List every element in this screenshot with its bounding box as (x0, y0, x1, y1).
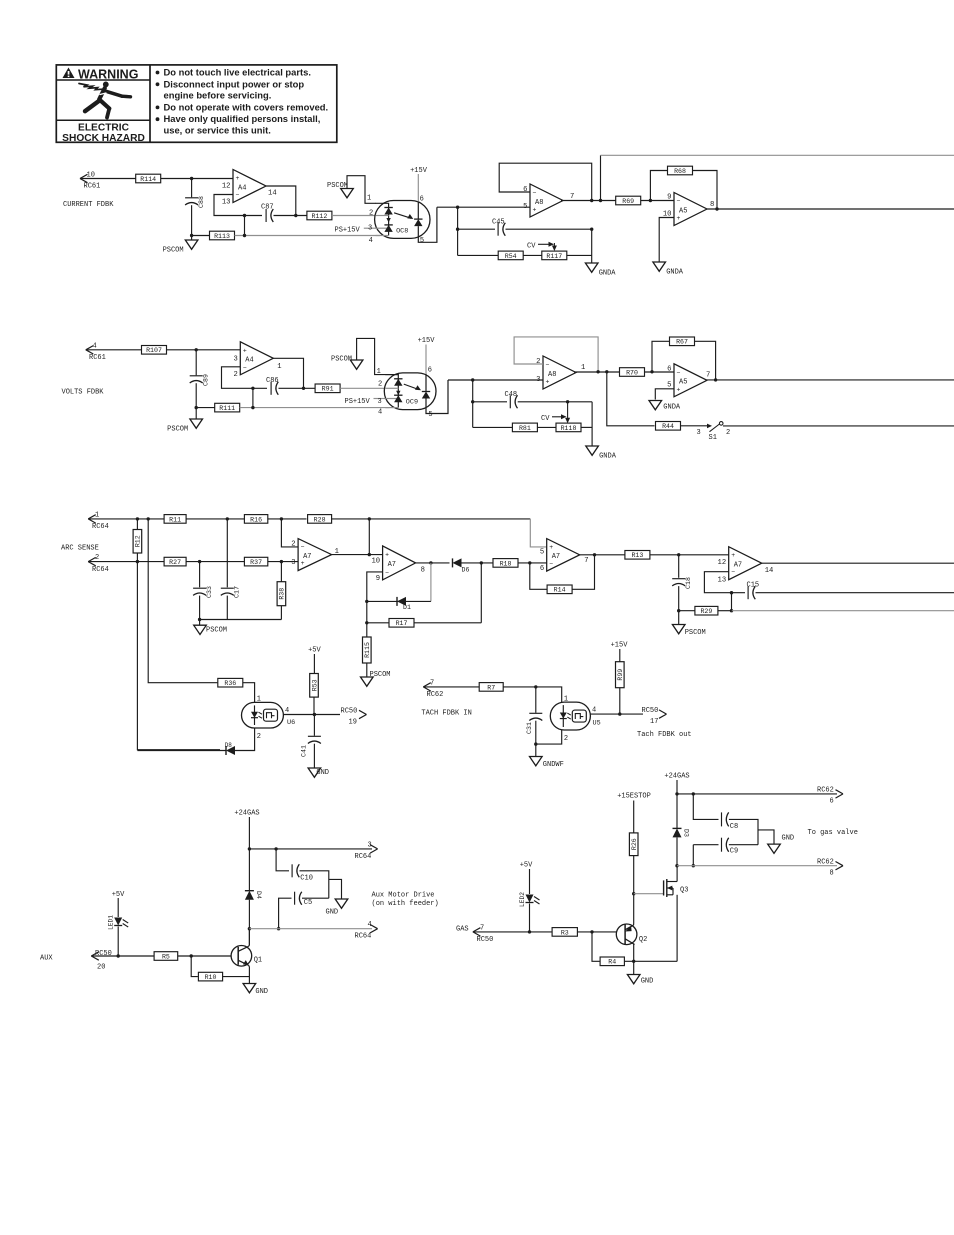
resistor R18 (493, 559, 518, 568)
wire U5 pin2 down (536, 730, 562, 744)
wire top page line (601, 154, 954, 156)
CV arrow row1 (538, 242, 557, 251)
node R17 right branch (480, 561, 483, 564)
wire U6 pin2 down (235, 728, 255, 751)
svg-text:VOLTS FDBK: VOLTS FDBK (62, 389, 105, 397)
wire node to R111 (196, 407, 215, 409)
resistor R69 (616, 196, 641, 205)
node C9/RC62-8 (692, 864, 695, 867)
connector RC50 pin20 arrow (91, 952, 99, 960)
wire branch C87 line (244, 216, 246, 236)
wire A5 output to edge row2 (706, 379, 954, 381)
svg-text:GNDA: GNDA (666, 269, 684, 277)
svg-text:A5: A5 (679, 379, 687, 387)
wire R29 row left (679, 610, 695, 612)
resistor R117 (542, 251, 567, 260)
wire C15 vert (731, 593, 733, 611)
wire R53 bottom lead (313, 697, 315, 714)
svg-text:+15V: +15V (611, 642, 629, 650)
svg-text:RC64: RC64 (92, 566, 109, 574)
wire +15ESTOP to R26 (633, 801, 635, 833)
node C45 left (456, 228, 459, 231)
wire R14 to output (572, 555, 594, 590)
svg-text:LED2: LED2 (519, 892, 526, 907)
node U5 out / R99 (618, 712, 621, 715)
svg-text:1: 1 (581, 364, 585, 372)
node C33 bottom (198, 618, 201, 621)
svg-text:Disconnect input power or stop: Disconnect input power or stop (164, 78, 305, 89)
node R12 bottom (136, 560, 139, 563)
svg-text:+5V: +5V (112, 891, 125, 899)
wire C31 bottom lead (535, 721, 537, 744)
ground PSCOM at OC8 (341, 189, 354, 198)
svg-text:GAS: GAS (456, 925, 469, 933)
resistor R10 (198, 972, 222, 981)
svg-text:R3: R3 (561, 929, 569, 936)
wire +5V stub (313, 654, 315, 674)
svg-text:R107: R107 (146, 347, 162, 354)
svg-text:GNDA: GNDA (599, 453, 617, 461)
node C31 bottom (534, 742, 537, 745)
wire R10 to emitter (223, 976, 250, 978)
ground GNDA row2 (586, 446, 617, 461)
wire R38 top lead (280, 562, 282, 582)
resistor R107 (142, 346, 167, 355)
svg-text:C87: C87 (261, 203, 274, 211)
node A8 input branch (456, 206, 459, 209)
wire R29 to C15 vert (718, 610, 732, 612)
node feedback/output (590, 199, 593, 202)
svg-text:GNDWF: GNDWF (543, 761, 564, 769)
ground GNDA under A5 row2 (649, 401, 681, 412)
wire C89 top lead (195, 350, 197, 376)
svg-text:+: + (236, 175, 240, 182)
wire PS+15V stub to pin3 row2 (374, 398, 389, 400)
node R68 branch (649, 199, 652, 202)
svg-text:R118: R118 (561, 425, 577, 432)
svg-text:A5: A5 (679, 207, 687, 215)
svg-text:U6: U6 (287, 719, 295, 727)
node C5/RC64-4 (277, 927, 280, 930)
wire branch down to R14 (530, 563, 547, 589)
node LED2/gas (528, 930, 531, 933)
connector RC64 pin1 arrow (88, 515, 96, 523)
resistor R113 (210, 231, 235, 240)
svg-text:+: + (385, 551, 389, 558)
wire branch down to C48 row (472, 380, 474, 427)
node D1 right branch (429, 561, 432, 564)
op-amp A5 row1 (663, 193, 714, 226)
svg-text:Q1: Q1 (254, 956, 262, 964)
svg-text:PSCOM: PSCOM (163, 247, 184, 255)
ground PSCOM row1 left (163, 240, 198, 255)
svg-text:D8: D8 (225, 742, 233, 749)
svg-text:R70: R70 (626, 369, 638, 376)
wire gate wire (634, 893, 664, 895)
svg-text:14: 14 (765, 567, 774, 575)
wire R54 row left (458, 254, 499, 256)
wire node to R113 (192, 235, 210, 237)
svg-text:R115: R115 (364, 642, 371, 658)
node U6 out / R53 (313, 713, 316, 716)
svg-text:To gas valve: To gas valve (808, 829, 858, 837)
svg-text:R7: R7 (487, 684, 495, 691)
resistor R27 (164, 557, 186, 566)
svg-text:PS+15V: PS+15V (335, 227, 361, 235)
wire C10 elbow (276, 849, 289, 871)
svg-text:D3: D3 (683, 829, 690, 837)
op-amp A8 row1 (523, 184, 574, 217)
svg-text:4: 4 (378, 408, 382, 416)
svg-text:RC50: RC50 (341, 708, 358, 716)
node R29/C15 vert (730, 609, 733, 612)
svg-text:C31: C31 (526, 722, 533, 734)
wire RC50 to R5 (91, 955, 153, 957)
node LED1/aux (117, 954, 120, 957)
node topline/output (599, 199, 602, 202)
svg-text:+: + (677, 386, 681, 393)
resistor R115 (363, 637, 372, 663)
wire D4 to RC64-4 (248, 900, 250, 946)
node RC62-8 branch (675, 864, 678, 867)
wire R68 to output (693, 171, 718, 210)
svg-text:3: 3 (536, 376, 540, 384)
wire R118 to vertical (581, 426, 592, 428)
svg-text:−: − (549, 561, 553, 568)
wire R17 row (367, 622, 389, 624)
warning bullet text (156, 67, 329, 136)
node R44 branch (605, 370, 608, 373)
svg-text:GND: GND (255, 988, 268, 996)
svg-text:C33: C33 (206, 586, 213, 598)
wire R12 down to D8 row (137, 553, 220, 750)
capacitor C88 (185, 196, 205, 208)
svg-text:PSCOM: PSCOM (370, 671, 391, 679)
wire A7-2 pin9 elbow (367, 572, 383, 637)
svg-text:R16: R16 (250, 516, 262, 523)
svg-text:RC61: RC61 (89, 354, 106, 362)
svg-text:13: 13 (222, 199, 231, 207)
wire C48 to right vertical (518, 401, 592, 403)
svg-text:3: 3 (697, 429, 701, 437)
svg-text:GND: GND (326, 909, 339, 917)
svg-text:Do not operate with covers rem: Do not operate with covers removed. (164, 101, 329, 112)
wire C33 bottom lead (199, 596, 201, 620)
svg-text:PSCOM: PSCOM (331, 356, 352, 364)
wire C18 top lead (678, 555, 680, 578)
resistor R17 (389, 619, 414, 628)
svg-text:+15V: +15V (418, 337, 436, 345)
svg-text:+24GAS: +24GAS (234, 810, 259, 818)
svg-text:OC8: OC8 (396, 227, 408, 235)
svg-text:C5: C5 (304, 899, 312, 907)
svg-text:+: + (243, 347, 247, 354)
resistor R11 (164, 515, 186, 524)
wire second arc line seg2 (186, 561, 244, 563)
connector RC61 pin10 arrow (80, 174, 88, 182)
wire A7-2 output (416, 562, 450, 564)
wire C9 left (693, 844, 718, 846)
wire U6 pin4 out (283, 714, 340, 716)
wire OC9 pin5 out (448, 379, 473, 381)
svg-text:−: − (243, 364, 247, 371)
op-amp A4 row2 (233, 342, 281, 379)
wire R44 to switch (681, 425, 710, 427)
svg-text:−: − (301, 544, 305, 551)
wire R114 to A4 pin12 (161, 178, 233, 180)
node vert2 top (147, 517, 150, 520)
node RC64-4 branch (248, 927, 251, 930)
wire RC64-4 row (249, 928, 372, 930)
svg-text:GNDA: GNDA (663, 404, 681, 412)
svg-text:RC50: RC50 (642, 707, 659, 715)
wire C9 right (729, 844, 758, 846)
op-amp A7 second (371, 546, 424, 583)
wire C45 to right vertical (506, 228, 592, 230)
wire C88 top lead (191, 179, 193, 198)
wire R70 to A5 pin6 (645, 371, 675, 373)
wire C41 top lead (313, 715, 315, 736)
wire A7-4 pin13 elbow (704, 572, 745, 593)
node R17 left (365, 621, 368, 624)
svg-text:5: 5 (667, 381, 671, 389)
svg-text:1: 1 (277, 363, 281, 371)
svg-text:GND: GND (316, 769, 329, 777)
wire second arc line seg1 (88, 561, 164, 563)
svg-text:RC64: RC64 (92, 523, 109, 531)
svg-text:9: 9 (376, 575, 380, 583)
op-amp A7 third (540, 539, 589, 574)
connector RC62 pin7 arrow (423, 683, 431, 691)
svg-text:+: + (533, 207, 537, 214)
node feedback/output row2 (596, 370, 599, 373)
node pin2 branch (280, 517, 283, 520)
diode D6 (453, 558, 470, 573)
svg-text:R5: R5 (162, 953, 170, 960)
ground GND gas caps (768, 844, 781, 853)
wire R91 to OC9 pin2 (340, 387, 386, 389)
wire RC61 to R114 (80, 178, 136, 180)
capacitor C15 (748, 586, 755, 599)
node CV arrow top (566, 400, 569, 403)
resistor R70 (620, 368, 645, 377)
wire R38 bottom lead (280, 606, 282, 620)
svg-text:+24GAS: +24GAS (664, 773, 689, 781)
ground PSCOM under C18 (672, 625, 705, 638)
wire A8 output (561, 200, 616, 202)
wire A4 pin2 feedback elbow (222, 367, 268, 389)
wire C8 right (729, 819, 758, 844)
svg-text:R36: R36 (224, 680, 236, 687)
svg-text:GND: GND (782, 835, 795, 843)
wire right vertical to GNDA row2 (591, 402, 593, 446)
resistor R16 (244, 515, 267, 524)
svg-text:R14: R14 (554, 587, 566, 594)
svg-text:PS+15V: PS+15V (345, 398, 371, 406)
optocoupler OC8 (375, 201, 437, 243)
connector RC64 pin3 arrow (370, 845, 378, 853)
svg-text:R4: R4 (608, 959, 616, 966)
resistor R38 (277, 582, 286, 606)
resistor R118 (556, 423, 581, 432)
svg-text:−: − (385, 569, 389, 576)
switch S1 (707, 422, 723, 432)
node D1 left (365, 600, 368, 603)
svg-text:RC62: RC62 (817, 859, 834, 867)
connector RC62 pin6 arrow (836, 790, 844, 798)
svg-text:−: − (236, 192, 240, 199)
wire C5 left elbow (279, 898, 292, 929)
svg-text:12: 12 (222, 183, 231, 191)
resistor R81 (512, 423, 537, 432)
wire C45 row (458, 228, 495, 230)
warning box frame (56, 65, 337, 142)
op-amp A4 row1 (222, 170, 277, 207)
wire RC62-6 row (677, 793, 837, 795)
ground GND under C41 (308, 768, 329, 777)
svg-text:R99: R99 (617, 669, 624, 681)
transistor Q2 (616, 924, 647, 945)
wire top arc line seg1 (88, 518, 164, 520)
svg-text:A7: A7 (552, 553, 560, 561)
svg-text:C88: C88 (198, 196, 205, 208)
svg-text:D6: D6 (462, 567, 470, 574)
svg-text:2: 2 (95, 554, 99, 562)
ground PSCOM row3 (194, 625, 227, 635)
capacitor C5 (295, 892, 302, 905)
wire C17 vertical (226, 519, 228, 587)
wire stub to pscom row3 (199, 620, 201, 626)
node R12 top (136, 517, 139, 520)
svg-text:13: 13 (718, 577, 727, 585)
wire A8 pin2 feedback row2 (514, 337, 598, 372)
wire +5V to LED1 (117, 898, 119, 917)
svg-text:R113: R113 (214, 233, 230, 240)
svg-text:+: + (731, 552, 735, 559)
svg-text:1: 1 (377, 368, 381, 376)
wire R111 to OC9 pin4 (240, 407, 390, 409)
svg-text:4: 4 (592, 707, 596, 715)
wire R36 to U6 pin1 (243, 683, 255, 703)
svg-text:WARNING: WARNING (78, 67, 138, 81)
svg-text:9: 9 (667, 194, 671, 202)
svg-text:7: 7 (584, 557, 588, 565)
wire Q2 top to R26 (633, 856, 635, 925)
wire +15V to OC8 (417, 174, 419, 202)
wire C18 bottom lead (678, 586, 680, 624)
node R14 left branch (528, 561, 531, 564)
capacitor C86 (271, 382, 278, 395)
svg-text:6: 6 (540, 565, 544, 573)
node C18 top (677, 553, 680, 556)
svg-text:S1: S1 (709, 434, 717, 442)
wire PS+15V stub to pin3 (364, 227, 379, 229)
svg-text:R53: R53 (311, 679, 318, 691)
wire vert2 down to R36 row (148, 519, 217, 683)
svg-text:−: − (546, 362, 550, 369)
capacitor C41 (300, 736, 321, 757)
svg-text:ARC SENSE: ARC SENSE (61, 545, 99, 553)
node A8 input branch row2 (471, 378, 474, 381)
svg-text:U5: U5 (593, 720, 601, 728)
svg-text:GND: GND (641, 978, 654, 986)
svg-text:10: 10 (371, 558, 380, 566)
wire D8 left (137, 750, 226, 752)
svg-text:A7: A7 (303, 553, 311, 561)
wire R113 to OC8 pin4 (235, 235, 381, 237)
node R111/C86 branch (251, 406, 254, 409)
svg-text:R12: R12 (135, 535, 142, 547)
capacitor C31 (526, 713, 543, 734)
connector RC61 pin4 arrow (86, 346, 94, 354)
node A7-1 out branch top (368, 517, 371, 520)
capacitor C48 (510, 395, 517, 408)
svg-text:R112: R112 (311, 213, 327, 220)
svg-text:R54: R54 (505, 253, 517, 260)
svg-text:8: 8 (710, 201, 714, 209)
resistor R5 (154, 952, 178, 961)
wire up to R67 (652, 341, 670, 372)
node C48 left (471, 400, 474, 403)
resistor R28 (308, 515, 332, 524)
diode D8 (226, 746, 235, 755)
node C89/R111 (195, 406, 198, 409)
svg-text:C10: C10 (300, 875, 313, 883)
wire Q1 collector up (248, 929, 251, 946)
wire A4 output (266, 186, 296, 216)
wire branch up to top line (368, 519, 370, 555)
svg-text:C18: C18 (685, 577, 692, 589)
svg-text:Do not touch live electrical p: Do not touch live electrical parts. (164, 67, 311, 78)
wire top arc line seg4 (332, 518, 531, 520)
svg-text:5: 5 (428, 411, 432, 419)
node on C87 line (243, 214, 246, 217)
wire A5 output to edge (707, 208, 954, 210)
wire C87 to R112 (274, 215, 308, 217)
svg-text:C86: C86 (266, 377, 279, 385)
wire D3 to C9 node (676, 837, 678, 865)
wire A5 pin5 to gnd row2 (655, 389, 674, 400)
wire C88 bottom lead (191, 205, 193, 240)
wire LED1 to aux line (117, 927, 119, 957)
svg-text:C15: C15 (747, 581, 760, 589)
wire pscom bottom row (200, 619, 282, 621)
svg-text:+: + (549, 544, 553, 551)
ground PSCOM at OC9 (350, 360, 363, 369)
svg-text:CV: CV (541, 415, 550, 423)
capacitor C45 (498, 223, 505, 236)
resistor R111 (215, 403, 240, 412)
svg-text:C17: C17 (234, 586, 241, 598)
svg-text:4: 4 (369, 237, 373, 245)
svg-text:2: 2 (726, 429, 730, 437)
svg-text:5: 5 (523, 203, 527, 211)
node R67 branch (650, 370, 653, 373)
wire R81 to R118 (537, 426, 556, 428)
optocoupler OC9 (384, 373, 448, 414)
wire C89 bottom lead (195, 383, 197, 419)
resistor R44 (656, 422, 681, 431)
capacitor C10 (292, 864, 299, 877)
wire top arc line seg2 (186, 518, 244, 520)
svg-text:6: 6 (830, 798, 834, 806)
svg-text:4: 4 (368, 921, 372, 929)
wire R29 line to edge (732, 610, 954, 612)
led LED1 (108, 915, 129, 930)
op-amp A8 row2 (536, 356, 585, 389)
diode D3 (673, 828, 690, 837)
node R113/C87 branch (243, 234, 246, 237)
